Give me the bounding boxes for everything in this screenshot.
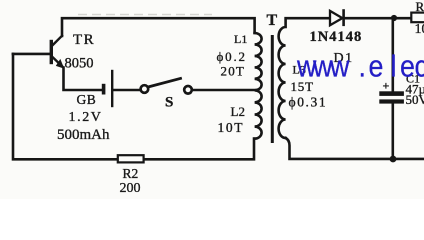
svg-text:ϕ0.31: ϕ0.31 [289, 95, 328, 110]
svg-text:R2: R2 [123, 166, 139, 181]
svg-text:200: 200 [120, 181, 141, 196]
svg-text:ϕ0.2: ϕ0.2 [217, 49, 247, 64]
svg-text:8050: 8050 [65, 56, 94, 72]
svg-text:www.elec: www.elec [296, 50, 424, 84]
svg-text:R: R [416, 0, 424, 14]
svg-text:10: 10 [415, 22, 424, 37]
svg-text:50V: 50V [406, 92, 424, 107]
svg-text:T: T [267, 12, 278, 29]
svg-text:1.2V: 1.2V [69, 110, 103, 125]
svg-text:10T: 10T [218, 120, 245, 135]
svg-text:L1: L1 [234, 32, 247, 46]
svg-text:1N4148: 1N4148 [310, 29, 363, 45]
svg-text:+: + [383, 79, 390, 93]
svg-text:20T: 20T [221, 64, 246, 79]
svg-text:S: S [165, 95, 173, 111]
svg-text:L2: L2 [231, 104, 245, 119]
svg-text:GB: GB [77, 92, 97, 107]
svg-text:TR: TR [73, 32, 95, 48]
svg-text:500mAh: 500mAh [57, 127, 110, 143]
